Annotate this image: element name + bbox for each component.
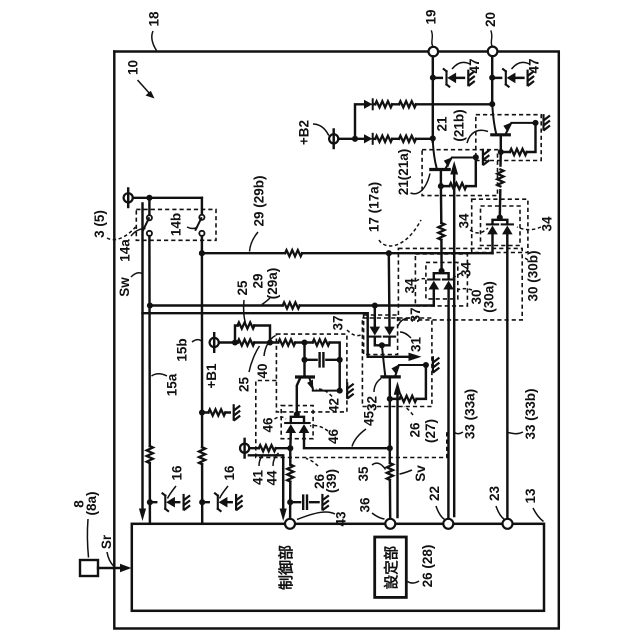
wire upper +B2 branch <box>355 104 492 139</box>
label 46 left <box>261 417 286 433</box>
svg-text:36: 36 <box>358 497 373 513</box>
svg-text:34: 34 <box>540 216 555 232</box>
node lower branch joins line 19 <box>430 135 436 141</box>
svg-text:17 (17a): 17 (17a) <box>367 182 382 232</box>
wire 43 down through resistor 44 <box>289 448 292 519</box>
label 31 <box>400 332 424 352</box>
label 25 upper <box>235 280 250 323</box>
node 14b output to wire 29b <box>199 250 205 256</box>
svg-text:46: 46 <box>261 417 276 433</box>
svg-text:47: 47 <box>467 58 482 73</box>
wire 22: 30a right diode down to terminal 22 <box>447 290 450 520</box>
wire +B1 to resistor 25 <box>219 341 272 343</box>
svg-text:26 (28): 26 (28) <box>420 545 435 588</box>
diode pair 34 lower (block 30a) <box>428 271 454 290</box>
svg-text:26: 26 <box>408 422 423 438</box>
resistor 32 feedback <box>400 396 417 402</box>
resistor 2 on lower +B2 branch <box>399 136 416 142</box>
terminal 19 <box>429 47 439 57</box>
lead of terminal 19 <box>432 31 434 47</box>
label 13 <box>523 488 543 521</box>
terminal 43 on control unit <box>285 519 295 529</box>
node 40 emitter <box>337 388 343 394</box>
resistor below 21a <box>438 223 444 240</box>
ground at 412 branch <box>234 405 240 420</box>
ground at 40 emitter <box>347 383 353 398</box>
wire 31 sense line <box>143 313 414 357</box>
protection diode 47a (zener) <box>444 69 456 87</box>
svg-text:33 (33a): 33 (33a) <box>463 389 478 439</box>
wire from +B2 to branch node <box>338 138 355 140</box>
node 40 base top <box>301 339 307 345</box>
label 46 right <box>310 425 341 444</box>
ground at 21a emitter <box>483 150 489 165</box>
wire 41 <box>249 447 290 449</box>
transistor 21 (21a) <box>431 142 476 187</box>
label 14b <box>169 213 198 236</box>
svg-text:43: 43 <box>334 511 349 527</box>
terminal 20 <box>488 47 498 57</box>
dashed box 34 lower <box>426 262 458 299</box>
wire resistor to ground branch <box>202 411 230 413</box>
wire to diode 47a <box>433 77 464 79</box>
resistor 1 on lower +B2 branch <box>375 136 392 142</box>
zener diode 16b <box>202 493 232 511</box>
label Sv <box>400 465 429 482</box>
svg-text:設定部: 設定部 <box>382 545 400 589</box>
node cap left <box>301 357 307 363</box>
node zener 16b <box>199 499 205 505</box>
node 21a collector <box>438 183 444 189</box>
resistor below 21b <box>497 169 503 186</box>
svg-text:16: 16 <box>222 465 237 481</box>
label 30 (30b) <box>523 250 541 301</box>
node 14a output to wire 29a <box>147 302 153 308</box>
resistor 41 <box>259 445 276 451</box>
svg-text:25: 25 <box>235 280 250 296</box>
node A of 40 input <box>232 339 238 345</box>
node 41/44/46/43 <box>287 445 293 451</box>
resistor 2 on upper +B2 branch <box>399 101 416 107</box>
svg-text:37: 37 <box>408 307 423 322</box>
diode on lower +B2 branch <box>364 134 373 144</box>
svg-text:29 (29b): 29 (29b) <box>252 175 267 226</box>
wire 23: 30b right diode down to terminal 23 <box>506 235 509 520</box>
lead of terminal 20 <box>491 31 492 46</box>
wire 29 (29a) <box>150 304 434 306</box>
label 33 (33a) <box>455 389 478 439</box>
label 40 <box>255 336 275 379</box>
wire 29 (29b) <box>202 252 493 254</box>
label 43 <box>297 511 349 527</box>
svg-text:14b: 14b <box>169 213 184 236</box>
node 32 collector <box>387 396 393 402</box>
dashed box 30b outer <box>472 199 528 252</box>
resistor 1 on upper +B2 branch <box>375 101 392 107</box>
svg-text:47: 47 <box>527 58 542 73</box>
terminal 36 on control unit <box>385 519 395 529</box>
svg-text:(29a): (29a) <box>265 268 280 300</box>
label 16b <box>220 465 238 498</box>
terminal 23 on control unit <box>503 519 513 529</box>
terminal 22 on control unit <box>443 519 453 529</box>
label 17 (17a) <box>367 182 421 246</box>
label 25 lower <box>237 346 260 392</box>
node below diode pair 37 <box>379 342 385 348</box>
svg-text:15b: 15b <box>175 338 190 361</box>
svg-text:22: 22 <box>427 486 442 501</box>
svg-text:Sv: Sv <box>413 465 428 482</box>
node wire 45 joins collector line <box>387 445 393 451</box>
svg-text:21: 21 <box>435 116 450 132</box>
sensor block 8 (8a) <box>80 560 98 576</box>
ground at diode 47b <box>528 71 534 86</box>
node 43 cap branch <box>287 499 293 505</box>
resistor 21b feedback <box>510 149 527 155</box>
label 14a <box>118 229 146 262</box>
label +B2 <box>297 120 329 145</box>
dashed box 37 <box>364 315 398 355</box>
label 33 (33b) <box>508 388 538 439</box>
label 37 left <box>331 315 363 335</box>
node branch 202/412 <box>199 409 205 415</box>
node 32 emitter <box>423 362 429 368</box>
label Sr <box>99 534 114 566</box>
label 30 (30a) <box>458 281 497 313</box>
ground at 32 emitter <box>433 357 439 372</box>
svg-text:18: 18 <box>147 11 162 27</box>
svg-text:29: 29 <box>251 273 266 288</box>
diode on upper +B2 branch <box>364 99 373 109</box>
switch 14b <box>196 198 205 524</box>
svg-text:(21b): (21b) <box>452 109 467 141</box>
transistor 32 <box>382 364 426 399</box>
label 26 (39) <box>306 459 339 494</box>
svg-text:Sr: Sr <box>99 534 114 549</box>
wire 33a drive line with arrow to 21a <box>450 161 458 516</box>
zener diode 16a <box>150 493 179 511</box>
wire 30b left diode to wire 29b <box>491 235 493 254</box>
ground at cap 43 <box>322 495 328 510</box>
svg-text:31: 31 <box>409 337 424 353</box>
label 35 <box>356 463 385 481</box>
svg-text:21(21a): 21(21a) <box>396 149 411 196</box>
transistor 21 (21b) <box>492 104 536 152</box>
svg-text:15a: 15a <box>165 373 180 396</box>
label 22 <box>427 486 444 520</box>
resistor 40 base 2 <box>313 339 330 345</box>
wire 36: 32 collector down to terminal 36 <box>389 399 392 519</box>
resistor 15a <box>147 446 153 463</box>
svg-text:14a: 14a <box>118 239 133 262</box>
protection diode 47b (zener) <box>503 69 515 87</box>
wire 21a collector down <box>440 186 443 271</box>
control unit box 13 <box>132 524 544 611</box>
node wire 29a to diode pair 37 <box>372 302 378 308</box>
label 34 c <box>403 278 429 294</box>
dashed box 34 upper <box>481 206 521 246</box>
svg-text:23: 23 <box>487 486 502 502</box>
label 44 <box>265 453 280 486</box>
svg-text:+B1: +B1 <box>204 363 219 389</box>
resistor 21a feedback <box>449 183 466 189</box>
resistor 40 base 1 <box>278 339 295 345</box>
svg-text:Sw: Sw <box>117 277 132 297</box>
svg-text:制御部: 制御部 <box>277 545 295 590</box>
wire from terminal 3 to switches <box>133 197 202 199</box>
label 21 (21b) <box>435 109 488 143</box>
label 37 right <box>398 307 423 326</box>
wire lower +B2 branch <box>355 138 433 140</box>
svg-text:(27): (27) <box>423 419 438 443</box>
wire Sr arrow from 8 to control unit <box>98 564 132 572</box>
svg-text:33 (33b): 33 (33b) <box>523 388 538 439</box>
label 15b <box>175 338 202 361</box>
dashed box 42 around 40 <box>276 334 347 412</box>
svg-text:25: 25 <box>237 377 252 393</box>
svg-text:34: 34 <box>459 262 474 278</box>
wire cap 42 branch <box>305 343 340 360</box>
dashed box 30 <box>398 248 522 320</box>
terminal +B1 <box>210 333 219 352</box>
node 21b emitter <box>532 120 538 126</box>
dashed box 26 (27) <box>362 318 432 407</box>
svg-text:45: 45 <box>362 411 377 427</box>
terminal 41 <box>240 439 249 458</box>
dashed box around 21b <box>476 115 541 161</box>
label 3 (5) <box>92 210 135 240</box>
wire 21b feedback <box>501 123 536 152</box>
arrow head of wire 31 <box>409 353 422 361</box>
wire 45: 46 right diode to 32 collector <box>304 433 390 448</box>
wire: output line 20 down to 21b base node <box>491 56 493 104</box>
label 29 (29b) <box>250 175 267 251</box>
svg-text:10: 10 <box>126 60 141 75</box>
switch 14a <box>143 198 152 524</box>
node at +B2 branch <box>352 136 358 142</box>
wire 32 feedback <box>390 365 426 399</box>
label 34 d <box>450 262 474 280</box>
svg-text:13: 13 <box>523 488 538 504</box>
transistor 40 <box>297 360 340 412</box>
ground at diode 47a <box>468 71 474 86</box>
node upper branch joins line 20 <box>489 101 495 107</box>
label 10 with arrow <box>126 60 155 99</box>
svg-text:42: 42 <box>327 398 342 413</box>
svg-text:30 (30b): 30 (30b) <box>526 250 541 301</box>
label 29 (29a) <box>251 268 281 305</box>
wire to diode 47b <box>492 77 523 79</box>
svg-text:40: 40 <box>255 363 270 378</box>
resistor 29a <box>283 302 300 308</box>
dashed outline 26 (39) <box>256 381 447 458</box>
resistor 29b <box>285 250 302 256</box>
node at switch 14a <box>146 195 152 201</box>
label 26 (27) <box>404 407 438 444</box>
wire 46 left diode down <box>289 433 292 448</box>
diode pair 34 upper (block 30b) <box>487 218 513 235</box>
node top of diode pair 34 (30a) <box>439 268 445 274</box>
svg-text:44: 44 <box>265 470 280 486</box>
wire 37 node to 32 base <box>382 345 385 375</box>
resistor 25 parallel combination <box>235 322 270 345</box>
wire: output line 19 down to 21a base node <box>432 56 434 141</box>
svg-text:20: 20 <box>483 12 498 27</box>
label 36 <box>358 497 385 519</box>
svg-text:(30a): (30a) <box>482 281 497 313</box>
svg-text:3 (5): 3 (5) <box>92 210 107 238</box>
label 21(21a) <box>396 149 430 196</box>
label 15a <box>152 373 180 396</box>
wire 30a left diode to wire 29a <box>433 290 435 306</box>
wire 21a feedback <box>441 157 476 186</box>
resistor on line 15b <box>199 447 205 464</box>
ground at 16a <box>184 495 190 510</box>
setting unit box 28 <box>375 537 407 597</box>
node cap right <box>337 357 343 363</box>
dashed box 46 <box>281 406 313 439</box>
wire 21b collector down <box>500 152 501 218</box>
diode pair 37 <box>369 253 395 345</box>
dashed box 30a outer <box>415 254 467 306</box>
wire to 40 base network <box>270 343 340 391</box>
dashed box 17 (17a) around 21a <box>422 150 497 196</box>
label 34 b <box>517 216 555 232</box>
node on line 20 at diode 47b <box>489 75 495 81</box>
wire Sw sense line with arrow into control unit <box>139 204 146 522</box>
label 45 <box>352 411 377 447</box>
ground at 21b emitter <box>544 115 550 130</box>
label 23 <box>487 486 504 520</box>
svg-text:+B2: +B2 <box>297 120 312 145</box>
wire 43 cap branch <box>290 501 318 503</box>
outer case border 18 <box>114 52 559 629</box>
label 47b <box>512 58 542 73</box>
svg-text:34: 34 <box>457 213 472 229</box>
node zener 16a <box>147 499 153 505</box>
diode pair 46 <box>285 414 309 433</box>
wire Sv drive line with arrow to 32 <box>394 382 402 518</box>
node wire 29b to diode pair 37 <box>386 250 392 256</box>
node B of 40 input <box>267 339 273 345</box>
svg-text:32: 32 <box>365 396 380 411</box>
label 32 <box>365 379 381 412</box>
svg-text:37: 37 <box>331 315 346 330</box>
resistor 35 <box>387 463 393 480</box>
terminal +B2 <box>329 130 338 149</box>
wire 44 with arrow into control unit <box>249 455 287 521</box>
label 47a <box>452 58 482 73</box>
svg-text:35: 35 <box>356 466 371 482</box>
svg-text:(39): (39) <box>324 469 339 493</box>
svg-text:(8a): (8a) <box>84 491 99 515</box>
label 34 a <box>457 213 488 233</box>
capacitor 42 <box>320 353 324 366</box>
label 8 (8a) <box>72 491 100 557</box>
svg-text:16: 16 <box>170 465 185 481</box>
svg-text:34: 34 <box>403 278 418 294</box>
node 21b collector <box>498 149 504 155</box>
terminal 3 (5) <box>124 189 133 208</box>
label 16a <box>168 465 185 498</box>
svg-text:19: 19 <box>424 9 439 24</box>
node on line 19 at diode 47a <box>430 75 436 81</box>
label 42 <box>316 389 342 413</box>
svg-text:41: 41 <box>251 470 266 486</box>
capacitor 43 <box>303 496 307 509</box>
svg-text:46: 46 <box>326 429 341 445</box>
dashed box switch unit 3 <box>136 209 216 240</box>
label 18 <box>147 11 162 50</box>
resistor 44 <box>287 465 293 482</box>
resistor on 412 branch <box>208 409 225 415</box>
label Sw <box>117 273 142 297</box>
ground at 16b <box>236 495 242 510</box>
node 21a emitter <box>473 154 479 160</box>
label 26 (28) <box>408 545 436 588</box>
node top of diode pair 46 <box>294 411 300 417</box>
label 41 <box>251 456 266 486</box>
node top of diode pair 34 (30b) <box>497 214 503 220</box>
